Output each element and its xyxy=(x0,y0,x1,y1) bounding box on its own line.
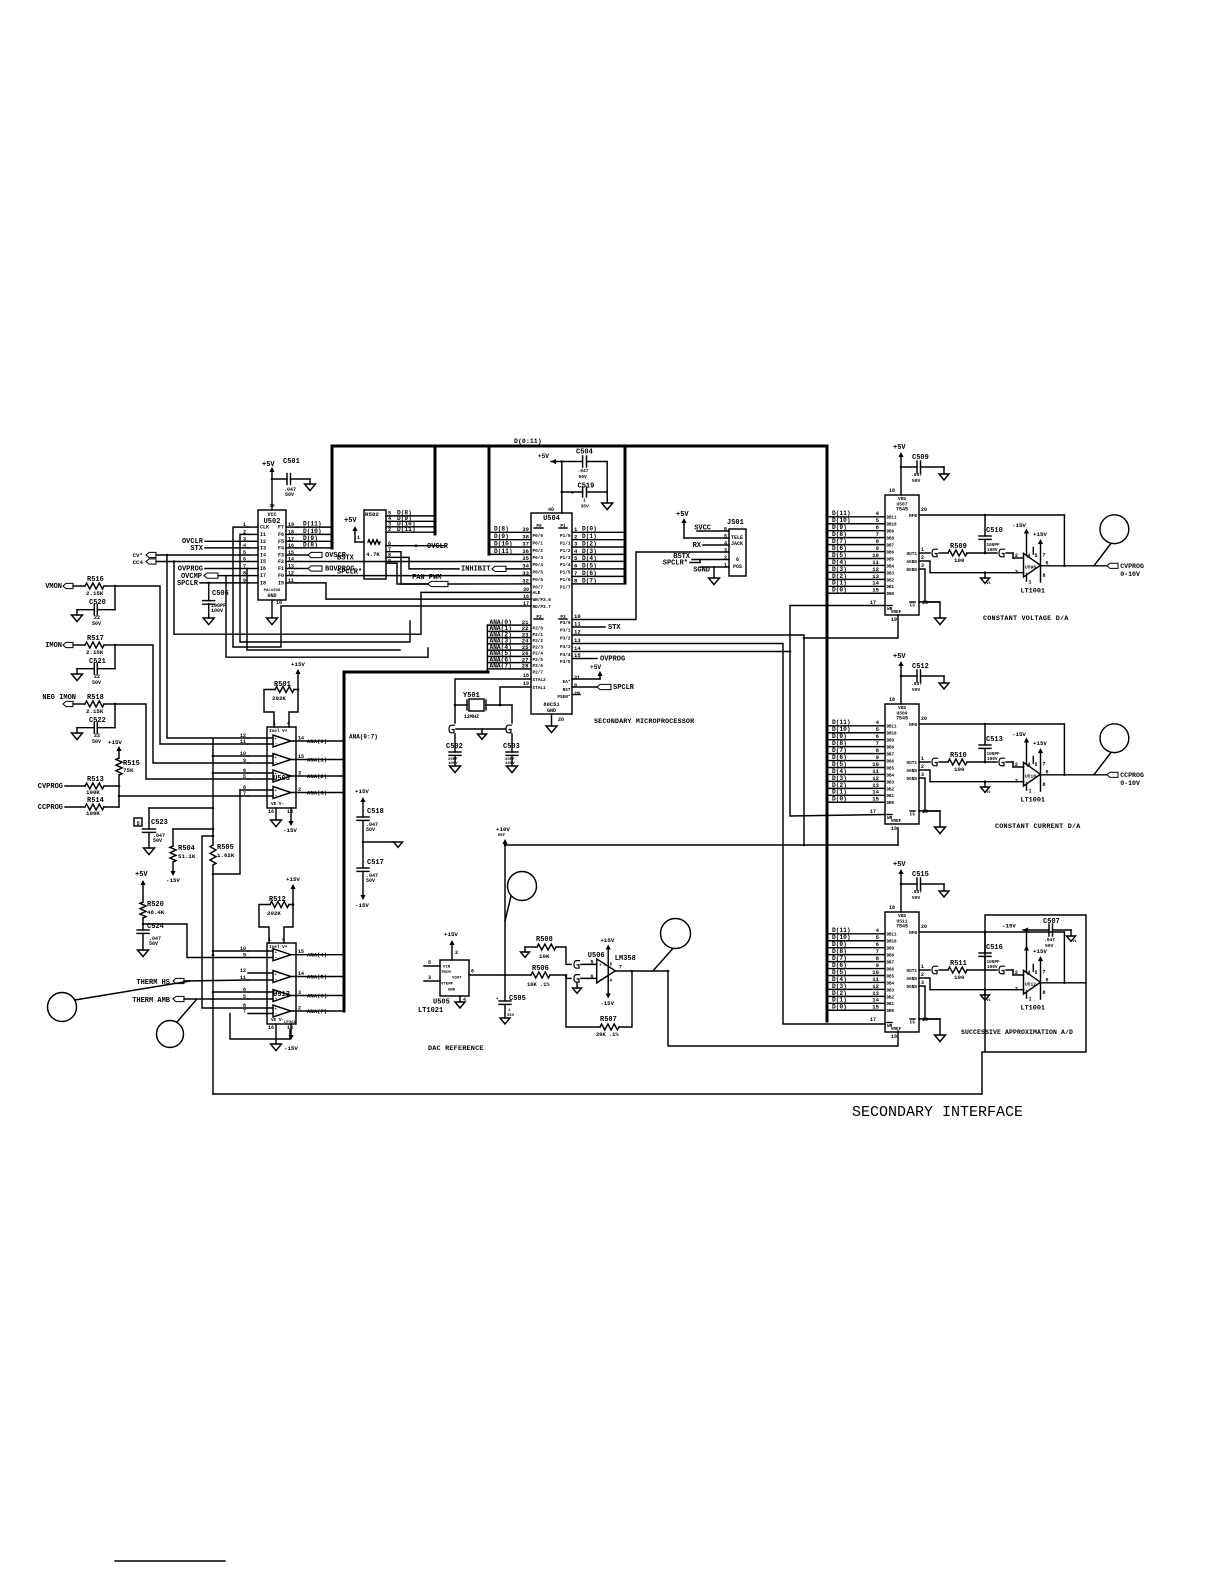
svg-text:-: - xyxy=(275,955,278,961)
svg-text:50V: 50V xyxy=(285,492,294,498)
node +10V REF xyxy=(496,826,510,975)
capacitor C502 20PF 100V xyxy=(446,743,463,773)
svg-text:DB8: DB8 xyxy=(887,747,895,751)
svg-text:Isel V+: Isel V+ xyxy=(269,945,288,950)
node BSTX output wire to U504 P0/4 xyxy=(296,555,531,563)
svg-text:1: 1 xyxy=(1029,789,1032,795)
svg-text:2: 2 xyxy=(921,764,924,770)
svg-text:D(10): D(10) xyxy=(494,540,513,547)
svg-text:R516: R516 xyxy=(87,576,104,584)
node FAN PWM flag xyxy=(412,574,531,587)
svg-text:5: 5 xyxy=(243,774,246,780)
svg-text:11: 11 xyxy=(872,768,879,775)
svg-text:35V: 35V xyxy=(581,504,590,510)
svg-text:D(10): D(10) xyxy=(832,934,851,941)
capacitor C517 .047 50V xyxy=(355,842,384,909)
svg-text:3: 3 xyxy=(1015,779,1018,785)
svg-text:GND: GND xyxy=(547,708,556,714)
svg-text:17: 17 xyxy=(870,809,876,815)
svg-text:+15V: +15V xyxy=(108,739,122,746)
svg-text:14: 14 xyxy=(872,580,879,587)
wire P3/3 to U511 WR rail xyxy=(572,644,885,1025)
svg-text:P3/1: P3/1 xyxy=(560,629,571,634)
svg-text:C510: C510 xyxy=(986,527,1003,535)
svg-text:D(2): D(2) xyxy=(832,782,847,789)
wire U511 OUT1 guard xyxy=(919,966,948,974)
svg-text:SECONDARY MICROPROCESSOR: SECONDARY MICROPROCESSOR xyxy=(594,718,695,726)
wire loop nest row 657 xyxy=(226,576,428,658)
wire -15V to U512 xyxy=(1026,930,1028,950)
svg-text:19: 19 xyxy=(288,522,294,528)
svg-text:LM358: LM358 xyxy=(615,955,636,963)
svg-text:100V: 100V xyxy=(448,762,458,766)
svg-text:I7: I7 xyxy=(260,573,266,579)
wire SAR comparison rail xyxy=(212,738,215,1094)
svg-text:DB11: DB11 xyxy=(887,726,898,730)
svg-text:DB11: DB11 xyxy=(887,517,898,521)
capacitor C520 22 50V xyxy=(72,586,116,627)
IC U507 7545 DAC xyxy=(870,488,928,623)
svg-text:-15V: -15V xyxy=(355,902,369,909)
node SGND at JS01 xyxy=(693,567,729,585)
node THERM HS flag xyxy=(136,978,248,987)
IC U502 PAL16V8 xyxy=(243,504,296,606)
annotation circle at U506 output xyxy=(653,919,691,972)
svg-text:V1: V1 xyxy=(987,582,991,586)
wire XTAL2 to crystal xyxy=(455,679,531,705)
svg-text:VE V-: VE V- xyxy=(271,1018,284,1023)
svg-text:12: 12 xyxy=(872,775,879,782)
svg-text:OUT1: OUT1 xyxy=(906,969,917,974)
svg-text:DB10: DB10 xyxy=(887,733,898,737)
node CC4 input flag xyxy=(133,559,248,566)
svg-text:202K: 202K xyxy=(272,695,286,702)
svg-text:12: 12 xyxy=(872,566,879,573)
svg-text:CVPROG: CVPROG xyxy=(1120,563,1144,570)
svg-text:16: 16 xyxy=(268,809,274,815)
svg-text:12: 12 xyxy=(288,571,294,577)
svg-text:DB1: DB1 xyxy=(887,1003,895,1007)
svg-text:IMON: IMON xyxy=(45,642,62,650)
IC U505 LT1021 reference xyxy=(418,931,505,1015)
resistor R505 1.62K xyxy=(210,844,235,865)
svg-text:50V: 50V xyxy=(912,687,921,693)
svg-text:D(9): D(9) xyxy=(832,524,847,531)
wire U513 rail taps xyxy=(212,950,248,992)
svg-text:7: 7 xyxy=(1043,970,1046,976)
svg-text:D(3): D(3) xyxy=(582,548,597,555)
svg-text:14: 14 xyxy=(872,789,879,796)
svg-text:51.1K: 51.1K xyxy=(178,853,196,860)
svg-text:U512: U512 xyxy=(1025,982,1036,988)
svg-text:3: 3 xyxy=(921,772,924,778)
svg-text:CS: CS xyxy=(910,1021,916,1026)
svg-text:D(0): D(0) xyxy=(832,587,847,594)
svg-text:+15V: +15V xyxy=(444,931,458,938)
svg-text:DB6: DB6 xyxy=(887,968,895,972)
text constant current D/A xyxy=(995,823,1081,831)
wire U502 outputs D(11)-D(8) to bus xyxy=(296,521,332,549)
svg-text:VIN: VIN xyxy=(443,966,451,970)
svg-text:ANA(1): ANA(1) xyxy=(307,756,327,763)
node CVPROG output flag xyxy=(1107,563,1144,578)
svg-text:19: 19 xyxy=(523,681,529,687)
capacitor C503 20PF 100V xyxy=(503,743,520,773)
svg-text:.047: .047 xyxy=(1044,937,1055,943)
svg-text:P0/3: P0/3 xyxy=(533,556,544,561)
svg-text:D(0): D(0) xyxy=(832,796,847,803)
svg-text:16: 16 xyxy=(268,1025,274,1031)
svg-text:D(7): D(7) xyxy=(832,747,847,754)
svg-text:2: 2 xyxy=(1015,762,1018,768)
node OVPROG input xyxy=(178,566,248,574)
svg-text:1: 1 xyxy=(268,937,271,943)
wire U504 pin40 VCC riser xyxy=(561,460,564,513)
svg-text:CS: CS xyxy=(910,813,916,818)
svg-text:R517: R517 xyxy=(87,635,104,643)
svg-text:EA*: EA* xyxy=(563,680,571,685)
power +5V at U511 xyxy=(893,861,906,912)
node CV* input flag xyxy=(133,552,248,559)
svg-text:DB4: DB4 xyxy=(887,774,895,778)
power +15V at R512 xyxy=(286,876,300,905)
guard at U510 input xyxy=(999,758,1024,767)
svg-text:4.7K: 4.7K xyxy=(366,551,380,558)
node input flag xyxy=(63,701,85,706)
wire R502 pin8 to INHIBIT net xyxy=(386,557,459,569)
svg-text:9: 9 xyxy=(243,758,246,764)
svg-text:DB1: DB1 xyxy=(887,795,895,799)
svg-text:2.15K: 2.15K xyxy=(86,590,104,597)
power +5V at U502 xyxy=(262,461,275,510)
resistor R517 2.15K xyxy=(85,635,116,656)
svg-text:VMON: VMON xyxy=(45,583,62,591)
svg-text:DB7: DB7 xyxy=(887,962,895,966)
svg-text:ANA(7): ANA(7) xyxy=(490,663,512,670)
svg-text:14: 14 xyxy=(288,557,294,563)
svg-text:OVPROG: OVPROG xyxy=(600,656,625,664)
svg-text:50V: 50V xyxy=(92,739,101,745)
svg-text:P3/0: P3/0 xyxy=(560,621,571,626)
svg-text:2: 2 xyxy=(921,555,924,561)
svg-text:+10V: +10V xyxy=(496,826,510,833)
svg-text:100: 100 xyxy=(954,557,965,564)
wire U511 data stubs xyxy=(828,927,884,1010)
resistor R504 51.1K xyxy=(166,829,213,884)
svg-text:8: 8 xyxy=(1043,573,1046,579)
svg-text:P1/2: P1/2 xyxy=(560,549,571,554)
svg-text:11: 11 xyxy=(240,739,246,745)
svg-text:10: 10 xyxy=(872,552,879,559)
guard at U506 pin6 xyxy=(573,975,597,994)
wire U513 input pins xyxy=(240,946,273,1015)
wire RD/P3.7 loop to U502 CLK xyxy=(233,527,531,647)
svg-text:33: 33 xyxy=(522,570,529,577)
svg-text:DB0: DB0 xyxy=(887,1010,895,1014)
svg-text:+15V: +15V xyxy=(355,788,369,795)
capacitor C505 1 35V xyxy=(496,974,526,1024)
svg-text:VTEMP: VTEMP xyxy=(441,983,454,987)
svg-text:+5V: +5V xyxy=(893,444,906,452)
svg-text:V1: V1 xyxy=(987,999,991,1003)
svg-text:D(0): D(0) xyxy=(832,1004,847,1011)
capacitor C509 .047 50V xyxy=(901,454,949,484)
svg-text:R502: R502 xyxy=(365,511,379,518)
svg-text:LT1001: LT1001 xyxy=(1021,797,1045,805)
svg-text:3: 3 xyxy=(921,563,924,569)
svg-text:31: 31 xyxy=(574,675,580,681)
node SPCLR* output wire to U504 P0/6 xyxy=(296,569,531,577)
wire U507 data stubs xyxy=(828,510,884,593)
svg-text:U505: U505 xyxy=(433,999,450,1007)
svg-text:+5V: +5V xyxy=(893,653,906,661)
svg-text:14: 14 xyxy=(298,971,304,977)
svg-text:100K: 100K xyxy=(86,789,100,796)
svg-text:D(4): D(4) xyxy=(832,559,847,566)
wire ALE loop xyxy=(173,560,531,634)
svg-text:+5V: +5V xyxy=(893,861,906,869)
wire VMON to U503 pin11 xyxy=(115,586,248,744)
wire U507 VREF xyxy=(804,615,898,638)
svg-text:5: 5 xyxy=(428,960,431,966)
svg-text:D(11): D(11) xyxy=(832,927,851,934)
resistor R507 20K .1% feedback xyxy=(566,971,632,1038)
svg-text:+: + xyxy=(571,490,575,497)
svg-text:13: 13 xyxy=(872,782,879,789)
svg-text:C501: C501 xyxy=(283,458,300,466)
svg-text:D(8): D(8) xyxy=(303,541,318,548)
svg-text:DB4: DB4 xyxy=(887,565,895,569)
svg-text:RD/P3.7: RD/P3.7 xyxy=(533,605,552,610)
svg-text:DB4: DB4 xyxy=(887,982,895,986)
svg-text:1: 1 xyxy=(1029,997,1032,1003)
svg-text:DB7: DB7 xyxy=(887,545,895,549)
svg-text:D(1): D(1) xyxy=(832,789,847,796)
svg-text:+5V: +5V xyxy=(590,664,601,671)
svg-text:DB2: DB2 xyxy=(887,579,895,583)
op-amp U508 LT1001 xyxy=(1015,529,1049,596)
svg-text:-15V: -15V xyxy=(1012,522,1026,529)
resistor R518 2.15K xyxy=(85,694,116,715)
svg-text:AGND: AGND xyxy=(906,560,917,565)
node IMON input flag xyxy=(45,642,85,650)
resistor R510 100 xyxy=(948,752,997,773)
svg-text:CCPROG: CCPROG xyxy=(38,804,63,812)
svg-text:I3: I3 xyxy=(260,545,266,551)
svg-text:CC4: CC4 xyxy=(133,559,144,566)
svg-text:7: 7 xyxy=(876,948,879,955)
svg-text:14: 14 xyxy=(872,997,879,1004)
svg-text:.047: .047 xyxy=(578,468,589,474)
svg-text:19: 19 xyxy=(891,826,897,832)
wire R502 pin9 to FAN PWM row xyxy=(386,563,428,584)
svg-text:19: 19 xyxy=(891,1034,897,1040)
power +5V at U504 EA* xyxy=(572,664,603,679)
svg-text:RST: RST xyxy=(563,688,571,693)
svg-text:P3/3: P3/3 xyxy=(560,645,571,650)
svg-text:D(6): D(6) xyxy=(832,962,847,969)
svg-text:D(1): D(1) xyxy=(582,533,597,540)
svg-text:V1: V1 xyxy=(1073,940,1077,944)
svg-text:D(2): D(2) xyxy=(832,990,847,997)
power +15V at U510 xyxy=(1033,740,1047,747)
svg-text:D(5): D(5) xyxy=(832,969,847,976)
svg-text:11: 11 xyxy=(872,559,879,566)
svg-text:D(2): D(2) xyxy=(582,540,597,547)
node INHIBIT flag xyxy=(461,566,531,574)
svg-text:20: 20 xyxy=(921,924,927,930)
svg-text:TRIM: TRIM xyxy=(441,971,451,975)
svg-text:D(11): D(11) xyxy=(832,510,851,517)
wire bus drop to DAC data inputs xyxy=(826,446,829,1021)
svg-text:5: 5 xyxy=(1035,970,1038,976)
svg-text:F4: F4 xyxy=(278,545,284,551)
wire U507 RFB feedback xyxy=(919,514,1066,567)
svg-text:D(1): D(1) xyxy=(832,580,847,587)
svg-text:DB2: DB2 xyxy=(887,996,895,1000)
svg-text:35V: 35V xyxy=(507,1014,515,1018)
svg-text:DB6: DB6 xyxy=(887,760,895,764)
svg-text:P1/6: P1/6 xyxy=(560,578,571,583)
svg-text:3: 3 xyxy=(921,980,924,986)
svg-text:C518: C518 xyxy=(367,808,384,816)
power +15V at C518 xyxy=(355,788,369,817)
svg-text:SGND: SGND xyxy=(693,567,710,575)
svg-text:R520: R520 xyxy=(147,901,164,909)
svg-text:RFB: RFB xyxy=(909,514,917,519)
power +15V at R515 xyxy=(108,739,122,758)
wire U503 rail taps xyxy=(212,755,248,775)
wire U504 P2 ANA stubs xyxy=(487,619,531,672)
svg-text:VDD: VDD xyxy=(898,706,906,711)
op-amp U506 LM358 xyxy=(588,937,636,1007)
svg-text:P2/5: P2/5 xyxy=(533,658,544,663)
svg-text:15: 15 xyxy=(288,550,294,556)
svg-text:DB5: DB5 xyxy=(887,767,895,771)
svg-text:U508: U508 xyxy=(1025,565,1036,571)
capacitor C524 .047 50V xyxy=(137,923,164,957)
svg-text:7545: 7545 xyxy=(896,507,908,513)
svg-text:ANA(0:7): ANA(0:7) xyxy=(349,734,378,741)
svg-text:-15V: -15V xyxy=(1002,923,1016,930)
svg-text:10: 10 xyxy=(276,600,282,606)
resistor R511 100 xyxy=(948,960,997,981)
svg-text:D(3): D(3) xyxy=(832,983,847,990)
svg-text:D(2): D(2) xyxy=(832,573,847,580)
wire U511 DGND xyxy=(919,986,940,1019)
svg-text:VREF: VREF xyxy=(891,819,902,824)
svg-text:1.62K: 1.62K xyxy=(217,852,235,859)
svg-text:+5V: +5V xyxy=(135,871,148,879)
svg-text:50V: 50V xyxy=(366,878,375,884)
power +5V at U509 xyxy=(893,653,906,704)
svg-text:100V: 100V xyxy=(505,762,515,766)
wire summing node to U503 pin7 xyxy=(118,786,248,807)
svg-text:20: 20 xyxy=(558,717,564,723)
svg-text:12: 12 xyxy=(240,968,246,974)
annotation circle at +10V REF xyxy=(505,872,537,922)
svg-text:ANA(5): ANA(5) xyxy=(307,973,327,980)
power -15V at U513 pin13 xyxy=(284,1024,298,1052)
svg-text:DAC REFERENCE: DAC REFERENCE xyxy=(428,1045,484,1053)
svg-text:P0/0: P0/0 xyxy=(533,534,544,539)
svg-text:C520: C520 xyxy=(89,599,106,607)
svg-text:17: 17 xyxy=(870,1017,876,1023)
svg-text:P1/1: P1/1 xyxy=(560,542,571,547)
svg-text:C519: C519 xyxy=(578,483,595,491)
svg-text:CLK: CLK xyxy=(260,525,269,531)
svg-text:4: 4 xyxy=(1028,762,1031,768)
svg-text:+5V: +5V xyxy=(262,461,275,469)
svg-text:3: 3 xyxy=(724,548,727,554)
guard at U508 input xyxy=(999,549,1024,558)
wire bus drop to U504 P1 xyxy=(624,446,627,583)
svg-text:7545: 7545 xyxy=(896,924,908,930)
svg-text:D(4): D(4) xyxy=(582,555,597,562)
svg-text:20K .1%: 20K .1% xyxy=(596,1032,619,1038)
svg-text:P1/7: P1/7 xyxy=(560,586,571,591)
wire U506 output to U511 VREF xyxy=(668,971,898,1046)
capacitor C522 22 50V xyxy=(72,704,116,745)
capacitor C506 100PF 100V xyxy=(203,583,229,625)
svg-text:7: 7 xyxy=(876,531,879,538)
IC U503 quad comparator xyxy=(267,727,296,808)
wire rail tap to U513 pin8 xyxy=(202,836,248,1008)
svg-text:5: 5 xyxy=(1035,762,1038,768)
svg-text:DB10: DB10 xyxy=(887,941,898,945)
wire SAR feedback bottom xyxy=(213,1093,982,1095)
wire U503 pin8 from V2 xyxy=(240,789,248,791)
wire R502 pin6 OVCLR xyxy=(386,543,449,551)
svg-text:D(9): D(9) xyxy=(832,941,847,948)
wire data bus D(0:11) top xyxy=(332,438,827,446)
svg-text:15: 15 xyxy=(298,949,304,955)
node zone reference 5 xyxy=(134,818,142,827)
text secondary microprocessor xyxy=(594,718,695,726)
op-amp U510 LT1001 xyxy=(1015,738,1049,805)
svg-text:C507: C507 xyxy=(1043,918,1060,926)
wire U507 AGND to op-amp xyxy=(919,561,1024,586)
svg-text:9: 9 xyxy=(574,683,577,689)
svg-text:RFB: RFB xyxy=(909,931,917,936)
wire U509 CS to ground xyxy=(919,811,946,834)
svg-text:R513: R513 xyxy=(87,776,104,784)
wire ANA bus vertical xyxy=(343,672,346,1011)
annotation circle left xyxy=(48,981,191,1022)
wire U509 AGND to op-amp xyxy=(919,770,1024,795)
svg-text:C512: C512 xyxy=(912,663,929,671)
svg-text:2: 2 xyxy=(388,527,391,533)
svg-text:15: 15 xyxy=(298,754,304,760)
power -15V at U510 xyxy=(1012,731,1026,738)
svg-text:JACK: JACK xyxy=(731,541,743,547)
power +5V at U504 xyxy=(538,453,562,464)
svg-text:+15V: +15V xyxy=(286,876,300,883)
svg-text:DB5: DB5 xyxy=(887,975,895,979)
wire P3/4 to WR rail xyxy=(572,650,791,653)
svg-text:10: 10 xyxy=(872,969,879,976)
svg-text:1: 1 xyxy=(921,964,924,970)
svg-text:202K: 202K xyxy=(267,910,281,917)
svg-text:I8: I8 xyxy=(260,580,266,586)
svg-text:100V: 100V xyxy=(987,548,998,553)
ground at U513 pin16 xyxy=(268,1024,282,1051)
svg-text:P0/6: P0/6 xyxy=(533,578,544,583)
svg-text:10K .1%: 10K .1% xyxy=(527,982,550,988)
svg-text:-15V: -15V xyxy=(166,877,180,884)
wire +10V REF distribution xyxy=(504,828,898,846)
svg-text:SPCLR: SPCLR xyxy=(613,684,635,692)
